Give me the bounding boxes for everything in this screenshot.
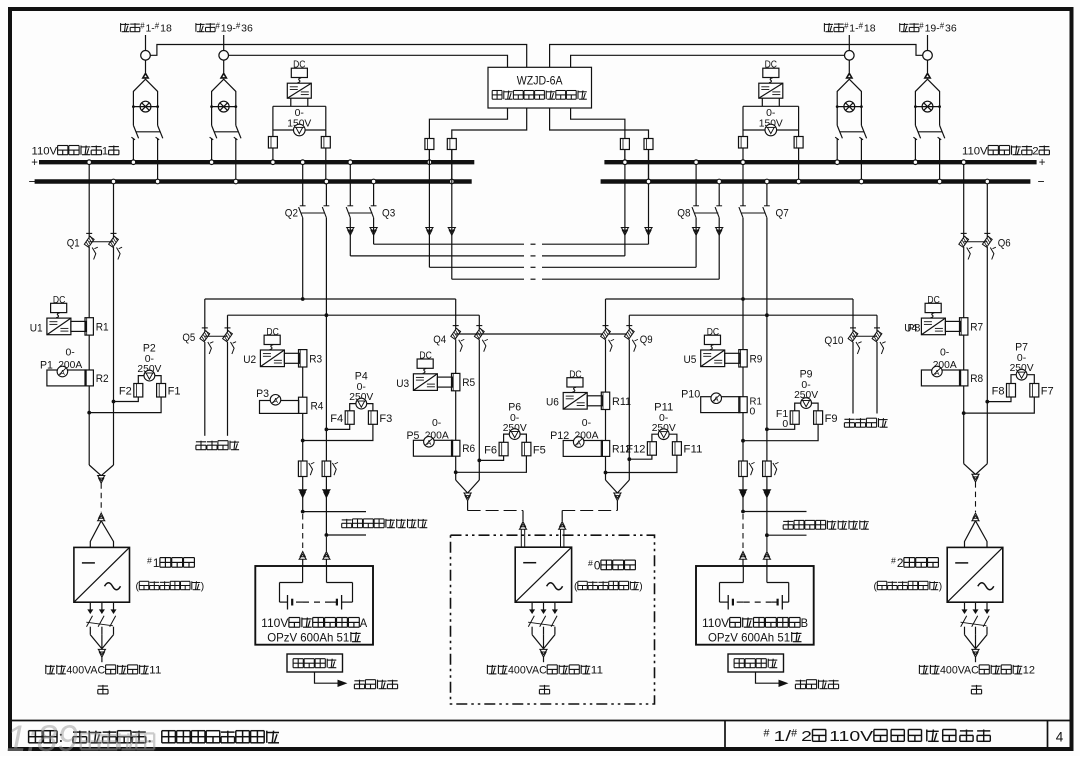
wire to monitor arrow B [756, 672, 788, 686]
fuse F6 [484, 442, 508, 456]
wire Q4 poles down [456, 340, 480, 461]
DC supply box of 0-150V voltmeter [763, 59, 779, 83]
svg-text:1/: 1/ [774, 729, 792, 745]
link bar U2-R3 [284, 353, 299, 363]
svg-text:2: 2 [897, 556, 904, 570]
svg-text:U5: U5 [684, 354, 697, 366]
converter U3 [396, 374, 437, 391]
label #1 charger [136, 556, 205, 593]
temperature compensation box A [287, 654, 343, 672]
DC box of U1 [51, 295, 67, 318]
ammeter P1 0-200A [40, 347, 86, 386]
link funnel to charger 0 left [468, 501, 527, 547]
svg-text:#: # [859, 21, 864, 30]
svg-text:R7: R7 [970, 322, 983, 334]
link funnel to charger 0 right [559, 501, 618, 547]
wire R5 to R6 [455, 391, 457, 440]
feeder unit 馈线#19-#36 [900, 21, 957, 183]
wire voltmeter leads [350, 404, 373, 411]
svg-text:#: # [919, 21, 924, 30]
svg-text:R5: R5 [462, 377, 475, 389]
bus 110V DC bus section 2 negative [601, 174, 1045, 188]
tap to battery management B lower [765, 533, 807, 537]
wire battery B mains [743, 315, 767, 461]
DC box of U6 [567, 369, 583, 392]
svg-text:F12: F12 [626, 444, 645, 456]
svg-text:OPzV 600Ah 51: OPzV 600Ah 51 [708, 631, 790, 645]
label 来自400VAC保安电源11 [45, 665, 47, 674]
DC box of U4 [925, 295, 941, 318]
DC box of U3 [417, 351, 433, 374]
wire F2 to line [114, 397, 139, 402]
DC supply box of 0-150V voltmeter [291, 59, 307, 83]
svg-text:Q8: Q8 [677, 208, 690, 220]
breaker Q10 [824, 328, 885, 354]
ammeter P10 0-200A [701, 393, 740, 413]
tie line Q3 pole2 to bus2- [370, 150, 652, 245]
monitor fuse on bus1+ [425, 139, 434, 165]
svg-text:R1: R1 [96, 322, 109, 334]
svg-text:19-: 19- [925, 23, 941, 35]
svg-text:P8: P8 [908, 323, 921, 335]
battery box B [696, 566, 814, 645]
wire to monitor arrow A [315, 672, 347, 686]
fuse-switch battery B pole1 [739, 461, 748, 477]
ammeter 0-200A [921, 347, 960, 386]
link bar U1-R1 [71, 321, 86, 331]
wire Q10 to test power [853, 342, 877, 414]
svg-text:0-: 0- [432, 417, 442, 429]
svg-text:4: 4 [1056, 730, 1064, 745]
wire bus to Q6 [961, 160, 989, 237]
note text [29, 730, 43, 732]
label test power right [844, 418, 854, 420]
charger #2 box [947, 547, 1003, 602]
resistor R11 [601, 392, 631, 409]
wire Q9 poles down [606, 340, 630, 460]
monitor WZJD-6A box [488, 67, 592, 108]
svg-text:B: B [801, 616, 808, 630]
converter of 0-150V voltmeter [759, 83, 783, 98]
wire R1 to R2 [88, 336, 90, 371]
svg-text:400VAC: 400VAC [508, 665, 547, 677]
fuse right of 0-150V [794, 130, 803, 184]
svg-text:Q6: Q6 [998, 238, 1011, 250]
wire monitor to bus2+ fuse [571, 108, 625, 139]
svg-text:Q3: Q3 [382, 208, 395, 220]
wire Q1 down to U1 [89, 247, 113, 402]
svg-text:F7: F7 [1041, 386, 1054, 398]
svg-text:R9: R9 [750, 353, 763, 365]
label to supervisor A [354, 680, 364, 682]
label to battery management unit A [342, 519, 352, 521]
fuse-switch battery A pole1 [298, 461, 307, 477]
watermark [6, 718, 154, 759]
svg-text:#: # [216, 21, 221, 30]
wire Q5-Q2-Q4 positive y299 [205, 297, 456, 331]
link bar U4-R7 [945, 321, 960, 331]
bracket wiring 0-150V [743, 98, 799, 130]
charger 1 input arrow [90, 513, 113, 547]
svg-text:U6: U6 [546, 397, 559, 409]
wire Q9-Q7-Q10 positive y299 [606, 297, 854, 331]
wire Q2 pole2 down [325, 218, 327, 316]
voltmeter P6 0-250V [503, 402, 527, 440]
DC box of U2 [264, 327, 280, 350]
svg-text:2: 2 [1032, 146, 1038, 158]
wire battery A mains [303, 315, 327, 461]
resistor R4 [299, 397, 324, 413]
wire F7 to line [964, 397, 1035, 413]
svg-text:F2: F2 [119, 386, 132, 398]
svg-text:#: # [236, 21, 241, 30]
svg-text:R4: R4 [311, 401, 324, 413]
svg-text:Q1: Q1 [67, 238, 80, 250]
label test power left [196, 441, 206, 443]
wire U6 rails to funnel [606, 456, 630, 500]
converter U6 [546, 393, 587, 410]
wire F3 to line [303, 424, 373, 440]
svg-text:#: # [588, 558, 593, 568]
dashed battery B leads [739, 514, 770, 566]
feeder unit 馈线#1-#18 [824, 21, 875, 183]
svg-text:DC: DC [266, 327, 278, 338]
fuse-switch battery B pole2 [763, 461, 772, 477]
fuse F11 [672, 442, 702, 456]
svg-text:DC: DC [419, 351, 431, 362]
svg-text:F6: F6 [484, 444, 497, 456]
voltmeter P11 0-250V [652, 402, 676, 440]
svg-text:DC: DC [53, 295, 65, 306]
fuse F7 [1030, 384, 1054, 398]
svg-text:DC: DC [927, 295, 939, 306]
wire Q5-Q2-Q4 negative y315 [228, 313, 480, 331]
label duan [971, 685, 981, 687]
svg-text:WZJD-6A: WZJD-6A [517, 75, 563, 87]
label #0 charger [574, 558, 643, 593]
charger #0 box [515, 547, 571, 602]
svg-text:11: 11 [149, 665, 161, 677]
link bar U6-R11 [587, 396, 602, 406]
wire U1 rails to funnel [89, 386, 113, 483]
svg-text:0: 0 [782, 418, 788, 430]
wire monitor to bus1- fuse [452, 108, 527, 139]
breaker Q9 [601, 326, 653, 352]
wire Q4 to Q9 [456, 333, 630, 335]
resistor R9 [739, 350, 763, 367]
wire F1 to line [89, 397, 161, 413]
resistor R2 [85, 370, 109, 386]
svg-text:#: # [891, 556, 896, 566]
voltmeter P4 0-250V [349, 371, 373, 410]
monitor fuse on bus2+ [620, 139, 629, 165]
svg-text:Q5: Q5 [182, 332, 195, 344]
svg-text:36: 36 [241, 23, 253, 35]
svg-text:R2: R2 [96, 373, 109, 385]
breaker Q4 [433, 326, 488, 352]
wire F10 to line [767, 424, 795, 429]
svg-text:1: 1 [102, 146, 108, 158]
3-phase input switches [86, 602, 115, 662]
tap to battery management A upper [301, 510, 366, 514]
fuse F9 [814, 411, 838, 425]
fuse left of 0-150V [268, 130, 277, 165]
3-phase input switches [961, 602, 990, 662]
converter of 0-150V voltmeter [287, 83, 311, 98]
svg-text:12: 12 [1023, 665, 1035, 677]
label 来自400VAC保安电源12 [918, 665, 920, 674]
fuse-switch battery A pole2 [322, 461, 331, 477]
svg-text:2: 2 [801, 729, 812, 745]
resistor R5 [452, 373, 476, 390]
svg-text:110V: 110V [702, 616, 729, 630]
fuse F4 [330, 411, 354, 425]
fuse F8 [992, 384, 1016, 398]
svg-text:DC: DC [707, 327, 719, 338]
wire feeder2 transducer to monitor [229, 55, 508, 67]
feeder unit 馈线#1-#18 [121, 21, 172, 183]
ammeter P3 [256, 388, 299, 413]
wire voltmeter leads [504, 434, 527, 442]
svg-text:Q9: Q9 [640, 334, 653, 346]
svg-text:0: 0 [594, 559, 601, 573]
tap to battery management A lower [325, 533, 367, 537]
wire Q7 pole1 down to U5 [742, 218, 744, 350]
wire voltmeter leads [795, 403, 818, 411]
svg-text:110V: 110V [261, 616, 288, 630]
wire monitor to bus1+ fuse [429, 108, 507, 139]
dashed battery A leads [299, 514, 330, 566]
voltmeter 0-150V [287, 107, 311, 136]
svg-text:P10: P10 [681, 389, 700, 401]
charger #0 enclosure dash-dot [451, 535, 655, 704]
breaker Q6 [959, 233, 1011, 259]
voltmeter P2 0-250V [137, 343, 161, 382]
svg-text:R11: R11 [612, 396, 631, 408]
wire R7 to R8 [963, 336, 965, 371]
wire R11 to R12 [605, 410, 607, 441]
fuse F10 [776, 408, 799, 430]
svg-text:F4: F4 [330, 413, 343, 425]
svg-text:0-: 0- [940, 347, 950, 359]
svg-text:): ) [201, 582, 204, 593]
svg-text:F11: F11 [683, 444, 702, 456]
svg-text:F1: F1 [168, 386, 181, 398]
label duan [539, 685, 549, 687]
svg-text:400VAC: 400VAC [940, 665, 979, 677]
svg-text:R6: R6 [462, 443, 475, 455]
converter U4 [904, 318, 945, 335]
ammeter P12 0-200A [550, 417, 602, 456]
wire F9 to line [743, 424, 818, 440]
svg-text:−: − [29, 174, 36, 188]
breaker Q2 [285, 160, 330, 220]
ammeter P5 0-200A [407, 417, 453, 456]
svg-text:U1: U1 [30, 322, 43, 334]
converter U5 [684, 350, 725, 367]
svg-text:Q4: Q4 [433, 334, 446, 346]
svg-text:Q2: Q2 [285, 208, 298, 220]
bus 110V DC bus section 2 positive [604, 157, 1045, 169]
svg-text:18: 18 [160, 23, 172, 35]
svg-text:110V: 110V [962, 146, 988, 158]
svg-text:A: A [360, 616, 367, 630]
wire U4 rails to funnel [964, 386, 988, 482]
fuse F5 [522, 442, 546, 456]
wire bus to Q1 [87, 160, 116, 237]
3-phase input switches [528, 602, 557, 662]
wire to arrows B [739, 477, 770, 536]
svg-text:19-: 19- [221, 23, 237, 35]
breaker Q5 [182, 328, 236, 354]
tap to battery management B upper [741, 510, 806, 514]
wire voltmeter leads [138, 376, 161, 384]
svg-text:#: # [791, 728, 797, 740]
resistor R3 [299, 350, 323, 367]
svg-text:R8: R8 [970, 373, 983, 385]
label #2 charger [874, 556, 943, 593]
fuse right of 0-150V [321, 130, 330, 184]
wire Q9-Q7-Q10 negative y315 [629, 313, 877, 331]
wire to arrows A [299, 477, 330, 536]
svg-text:F3: F3 [379, 413, 392, 425]
svg-text:−: − [1038, 174, 1045, 188]
fuse F1 [157, 384, 181, 398]
svg-text:400VAC: 400VAC [66, 665, 105, 677]
resistor R7 [960, 318, 984, 335]
wire Q2 pole1 down [302, 218, 304, 299]
resistor R8 [960, 370, 984, 386]
voltmeter P7 0-250V [1010, 342, 1034, 381]
svg-text:18: 18 [864, 23, 876, 35]
svg-text:U3: U3 [396, 378, 409, 390]
wire voltmeter leads [652, 434, 677, 442]
resistor R10 [681, 389, 762, 418]
svg-text:): ) [639, 582, 642, 593]
svg-text:+: + [31, 157, 38, 169]
wire Q5 to test power [205, 342, 228, 436]
resistor R6 [452, 440, 476, 456]
wire monitor to right feeder1 transducer [571, 55, 845, 67]
svg-text:F8: F8 [992, 386, 1005, 398]
dashed link to charger 1 [100, 483, 102, 512]
battery box A [255, 566, 373, 645]
svg-text:1: 1 [153, 556, 160, 570]
svg-text:R3: R3 [309, 353, 322, 365]
link bar U5-R9 [725, 353, 740, 363]
svg-text:#: # [147, 556, 152, 566]
fuse F12 [626, 442, 656, 456]
wire F8 to line [987, 397, 1011, 402]
svg-text:P3: P3 [256, 388, 269, 400]
wire Q6 down to U4 [964, 247, 988, 402]
svg-text:110V: 110V [829, 729, 874, 745]
wire monitor to right feeder2 transducer [550, 45, 923, 68]
wire monitor to bus2- fuse [550, 108, 649, 139]
breaker Q3 [346, 160, 395, 220]
fuse left of 0-150V [739, 130, 748, 165]
title bar [12, 721, 1070, 748]
wire F6 to line [479, 456, 503, 461]
svg-text:#: # [764, 728, 770, 740]
wire voltmeter leads [1011, 375, 1034, 384]
converter U1 [30, 318, 71, 335]
DC box of U5 [704, 327, 720, 350]
link bar U3-R5 [437, 377, 452, 387]
wire F12 to line [629, 455, 652, 459]
tie line Q8 pole1 to bus1+ [426, 150, 700, 268]
wire F4 to line [326, 424, 349, 429]
temperature compensation box B [728, 654, 784, 672]
wire R3 to R4 [302, 367, 304, 397]
wire R9 to R10 [742, 367, 744, 396]
charger #1 box [74, 547, 130, 602]
svg-text:Q7: Q7 [776, 208, 789, 220]
charger 2 input arrow [965, 513, 988, 547]
svg-text:DC: DC [569, 369, 581, 380]
wire F11 to line [606, 455, 677, 472]
svg-text:0-: 0- [582, 417, 592, 429]
svg-text:36: 36 [945, 23, 957, 35]
svg-text:110V: 110V [32, 146, 58, 158]
bracket wiring 0-150V [273, 98, 326, 130]
wire U3 rails to funnel [456, 456, 480, 501]
svg-text:Q10: Q10 [824, 335, 843, 347]
wire Q7 pole2 down [766, 218, 768, 316]
breaker Q8 [677, 160, 722, 220]
label duan [98, 685, 108, 687]
tie line Q8 pole2 to bus1- [448, 150, 723, 280]
svg-text:OPzV 600Ah 51: OPzV 600Ah 51 [267, 631, 349, 645]
dashed link to charger 2 [975, 482, 977, 512]
wire F5 to line [456, 456, 527, 473]
svg-text:1:89: 1:89 [6, 718, 78, 756]
resistor R12 [601, 441, 631, 457]
bus 110V DC bus section 1 positive [31, 157, 474, 169]
monitor fuse on bus2- [644, 139, 653, 184]
voltmeter 0-150V [759, 107, 783, 136]
label to supervisor B [795, 680, 805, 682]
svg-text:F9: F9 [825, 413, 838, 425]
breaker Q1 [67, 233, 122, 259]
fuse F2 [119, 384, 143, 398]
svg-text:U2: U2 [243, 354, 256, 366]
svg-text:0-: 0- [66, 347, 76, 359]
resistor R1 [85, 318, 109, 335]
svg-text:#: # [155, 21, 160, 30]
label to battery management unit B [783, 520, 793, 522]
label 来自400VAC保安电源11 [486, 665, 488, 674]
monitor fuse on bus1- [447, 139, 456, 184]
svg-text:F5: F5 [533, 444, 546, 456]
svg-text:0: 0 [750, 406, 756, 418]
breaker Q7 [739, 160, 789, 220]
svg-text:+: + [1039, 157, 1046, 169]
converter U2 [243, 350, 284, 367]
tie line Q3 pole1 to bus2+ [347, 150, 629, 256]
svg-text:): ) [939, 582, 942, 593]
wire feeder1 transducer to monitor [150, 45, 526, 68]
bus 110V DC bus section 1 negative [29, 174, 472, 188]
fuse F3 [368, 411, 392, 425]
feeder unit 馈线#19-#36 [196, 21, 253, 183]
voltmeter P9 0-250V [794, 369, 818, 409]
svg-text:11: 11 [591, 665, 603, 677]
svg-text:#: # [940, 21, 945, 30]
